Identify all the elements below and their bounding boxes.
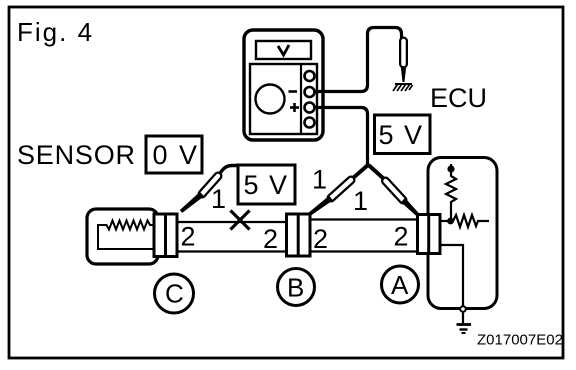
svg-text:B: B xyxy=(287,273,304,303)
node A circle xyxy=(382,266,419,303)
voltmeter body xyxy=(244,30,323,140)
sensor body xyxy=(87,209,158,264)
wire top pair B-A terminal 1 xyxy=(309,218,419,220)
probe into B terminal 1 xyxy=(307,165,368,216)
resistor R1 (pull-up, vertical zigzag) xyxy=(446,164,456,221)
svg-text:1: 1 xyxy=(211,184,226,214)
probe into A terminal 1 xyxy=(369,165,420,216)
svg-text:5 V: 5 V xyxy=(244,170,289,200)
svg-text:2: 2 xyxy=(181,222,196,252)
svg-text:2: 2 xyxy=(394,222,409,252)
wire middle 5V box to probe C xyxy=(219,166,240,175)
box 0V xyxy=(146,136,202,173)
wire voltmeter plus to probe junction xyxy=(314,108,368,166)
wire A terminal2 to ground xyxy=(438,245,463,306)
probe at ECU terminal (top right) xyxy=(393,41,413,91)
svg-text:C: C xyxy=(165,279,184,309)
svg-text:0 V: 0 V xyxy=(153,140,200,170)
svg-text:ECU: ECU xyxy=(430,83,487,113)
voltmeter display xyxy=(256,41,311,59)
svg-text:SENSOR: SENSOR xyxy=(17,140,136,170)
wire top pair C-B terminal 1 xyxy=(177,221,287,223)
minus sign xyxy=(289,90,298,93)
svg-text:Z017007E02: Z017007E02 xyxy=(477,332,563,349)
terminal jacks xyxy=(305,71,315,128)
ground symbol xyxy=(457,325,472,334)
node B circle xyxy=(278,269,315,306)
plus sign xyxy=(290,103,299,112)
wire voltmeter minus to probe xyxy=(314,28,402,92)
box 5V mid xyxy=(238,165,295,204)
svg-text:5 V: 5 V xyxy=(379,120,424,150)
wire bottom C-A terminal 2 xyxy=(177,250,419,252)
ECU 5V supply pin dot xyxy=(447,165,454,172)
box 5V at ECU xyxy=(375,115,431,154)
node C circle xyxy=(155,274,194,313)
ground terminal node xyxy=(460,306,466,312)
connector A xyxy=(418,215,441,254)
wire A terminal1 to node xyxy=(438,220,449,222)
svg-text:2: 2 xyxy=(313,224,328,254)
wire node to ground xyxy=(462,312,464,323)
node at R1/R2 junction xyxy=(447,218,454,225)
svg-text:A: A xyxy=(391,270,409,300)
voltmeter dial xyxy=(256,85,285,114)
probe into C terminal 1 xyxy=(180,176,218,213)
display V glyph xyxy=(278,45,289,55)
voltmeter panel xyxy=(250,64,317,134)
svg-text:Fig. 4: Fig. 4 xyxy=(17,17,94,47)
connector B xyxy=(287,214,311,256)
panel divider xyxy=(300,64,302,134)
connector C xyxy=(154,214,177,257)
svg-text:2: 2 xyxy=(263,224,278,254)
svg-text:1: 1 xyxy=(353,186,368,216)
X break mark on wire C-B xyxy=(231,211,250,230)
ECU body xyxy=(428,158,497,309)
sensor element resistor xyxy=(98,221,154,250)
svg-text:1: 1 xyxy=(312,165,327,195)
resistor R2 (horizontal zigzag) xyxy=(451,215,489,227)
